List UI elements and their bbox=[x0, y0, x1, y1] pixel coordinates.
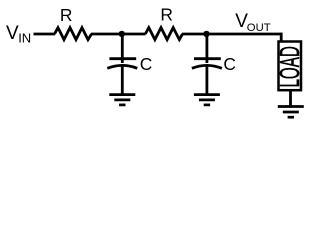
svg-text:R: R bbox=[160, 5, 173, 25]
resistor R1 bbox=[55, 5, 92, 40]
svg-text:C: C bbox=[223, 54, 236, 74]
svg-text:V: V bbox=[6, 23, 19, 44]
node A junction dot bbox=[119, 31, 125, 37]
ground for C1 bbox=[109, 95, 135, 105]
svg-text:C: C bbox=[140, 54, 153, 74]
wire load to ground bbox=[289, 90, 292, 107]
load box RL bbox=[274, 42, 305, 91]
node B junction dot bbox=[203, 31, 209, 37]
svg-text:OUT: OUT bbox=[247, 22, 271, 34]
ground for C2 bbox=[194, 95, 220, 105]
ground for load bbox=[278, 107, 304, 118]
wire R1 to R2 bbox=[91, 33, 146, 36]
wire R2 to output elbow bbox=[182, 33, 281, 36]
svg-text:LOAD: LOAD bbox=[274, 46, 305, 88]
svg-text:R: R bbox=[60, 5, 73, 25]
wire VIN to R1 bbox=[34, 33, 56, 36]
svg-text:IN: IN bbox=[18, 31, 31, 46]
capacitor C1 bbox=[107, 34, 152, 94]
net label VOUT bbox=[235, 11, 271, 34]
resistor R2 bbox=[145, 5, 182, 40]
capacitor C2 bbox=[192, 34, 236, 94]
wire elbow down to load bbox=[280, 33, 283, 42]
net label VIN bbox=[6, 23, 31, 45]
